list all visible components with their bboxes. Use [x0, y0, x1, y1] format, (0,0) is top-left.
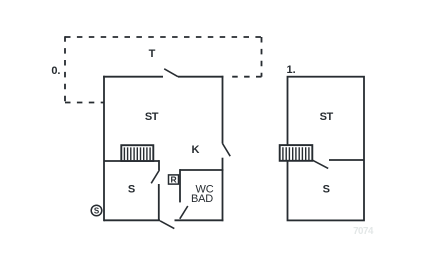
door leaf bottom entrance door [160, 221, 174, 229]
svg-text:ST: ST [145, 111, 159, 123]
svg-text:S: S [128, 184, 135, 196]
svg-text:R: R [171, 175, 177, 185]
terrace dashed outline left [64, 36, 66, 102]
wall ground-floor bottom-left [104, 219, 160, 221]
node boxed R (hall marker) [169, 175, 179, 185]
svg-text:K: K [192, 144, 200, 156]
door leaf terrace door [164, 69, 178, 77]
svg-text:1.: 1. [287, 64, 296, 76]
stair ground floor [121, 145, 153, 161]
wall upper-floor outline [288, 77, 365, 221]
wall ground-floor right upper [222, 76, 224, 144]
door leaf WC door [180, 206, 188, 219]
door leaf bedroom S door [151, 170, 159, 183]
svg-text:7074: 7074 [353, 226, 374, 237]
wall ground-floor bottom-right [175, 219, 224, 221]
svg-text:ST: ST [320, 111, 334, 123]
wall ground-floor left [103, 76, 105, 221]
door leaf upper-floor door [312, 160, 328, 169]
door leaf right entrance door [223, 144, 231, 157]
svg-text:T: T [149, 48, 156, 60]
svg-text:S: S [323, 184, 330, 196]
wall ground-floor right lower [222, 158, 224, 222]
terrace dashed outline bottom-left [65, 102, 104, 104]
node circled S (left wall marker) [91, 205, 102, 216]
wall door jamb stub [158, 160, 160, 170]
terrace dashed outline top [65, 36, 262, 38]
wall WC/BAD top [180, 169, 223, 171]
wall ground-floor top-right segment [178, 76, 223, 78]
stair upper floor [280, 145, 313, 161]
terrace dashed outline right [261, 37, 263, 77]
wall bedroom S top [104, 160, 159, 162]
svg-text:BAD: BAD [191, 193, 213, 205]
svg-text:0.: 0. [51, 65, 60, 77]
wall ground-floor top-left segment [103, 76, 163, 78]
wall hallway vertical [158, 184, 160, 221]
terrace dashed outline bottom-right [226, 76, 262, 78]
wall WC/BAD left [179, 169, 181, 202]
wall upper-floor divider [329, 159, 364, 161]
svg-text:S: S [94, 206, 100, 215]
